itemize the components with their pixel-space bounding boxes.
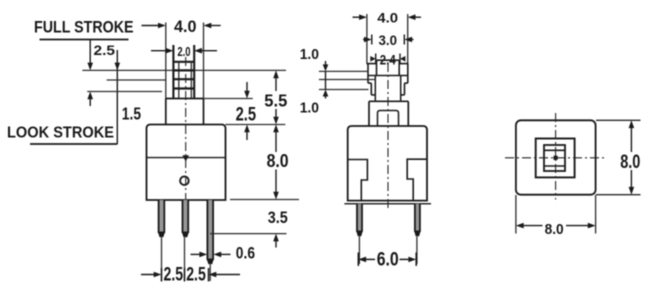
dim text 6.0: [377, 249, 399, 270]
button hole square: [536, 139, 575, 178]
dim text 2.0: [177, 45, 190, 59]
svg-text:3.0: 3.0: [379, 33, 398, 48]
right notch side view: [407, 159, 427, 200]
step box side view: [369, 101, 408, 126]
dim text 1.0 lower: [300, 101, 319, 117]
dim text 2.5 right: [186, 263, 206, 285]
button rect lower line: [544, 165, 565, 167]
lock pin circle: [180, 176, 189, 185]
plunger cap side view: [377, 60, 400, 75]
plunger flange ears side view: [367, 64, 409, 84]
lock stroke vertical with arrow: [115, 50, 121, 144]
dim 6.0: [358, 253, 416, 267]
center dot: [554, 156, 558, 160]
button rect upper line: [544, 149, 565, 151]
base plate line side view: [344, 203, 431, 205]
svg-text:2.5: 2.5: [164, 263, 184, 285]
hidden plunger rect in step: [378, 111, 399, 127]
pin left side view: [356, 204, 363, 237]
pin 2 front view: [182, 200, 190, 237]
dim text 2.5 full stroke: [94, 42, 116, 58]
right extension line 8.0 bottom: [595, 195, 597, 234]
full stroke underline: [40, 39, 129, 41]
vertical centerline top view: [555, 113, 557, 200]
shaft rung 1 (on full stroke line): [173, 69, 194, 71]
button rect: [544, 145, 565, 171]
dim 3.0 side view: [363, 35, 414, 45]
svg-text:LOOK STROKE: LOOK STROKE: [7, 125, 114, 142]
dim 8.0 body height: [273, 125, 279, 200]
leader mid side view: [319, 79, 375, 81]
body front view: [147, 125, 226, 201]
pin extension line 2: [184, 238, 186, 282]
step top extension to 2.5 arrow: [204, 98, 253, 100]
dim text 2.4: [380, 52, 396, 67]
full stroke leader arrow: [87, 40, 93, 71]
leader line lock level: [87, 91, 162, 93]
dim 4.0 side view: [353, 14, 422, 20]
body seam line: [147, 157, 226, 159]
pin extension line 1: [161, 238, 163, 282]
leader line mid level: [107, 79, 166, 81]
top extension line 8.0 right: [596, 119, 641, 121]
svg-text:FULL STROKE: FULL STROKE: [34, 18, 134, 37]
dim 3.5 pin length: [273, 234, 279, 248]
left extension line 8.0 bottom: [515, 195, 517, 234]
label LOOK STROKE: [7, 125, 114, 142]
dim text 4.0 front: [174, 18, 197, 36]
up arrow 1.5: [87, 92, 93, 107]
seam center diamond: [182, 155, 189, 161]
dim text 1.0 upper: [300, 47, 319, 63]
leader lower side view: [319, 89, 369, 91]
dim text 5.5: [264, 91, 287, 111]
pin 1 front view: [158, 200, 166, 237]
body top extension line: [226, 124, 286, 126]
svg-text:8.0: 8.0: [620, 152, 640, 173]
left notch side view: [348, 160, 368, 201]
dim text 8.0 front: [267, 151, 289, 171]
dim text 1.5: [122, 104, 141, 124]
look stroke underline: [30, 143, 117, 145]
top view outline: [516, 120, 596, 194]
svg-text:2.0: 2.0: [177, 45, 190, 59]
dim 2.0 front view: [151, 48, 217, 54]
pin 3 front view (long): [207, 200, 215, 264]
dim text 2.5 left: [164, 263, 184, 285]
svg-text:6.0: 6.0: [377, 249, 399, 270]
svg-text:5.5: 5.5: [264, 91, 287, 111]
svg-text:8.0: 8.0: [267, 151, 289, 171]
pin extension left side: [358, 236, 360, 264]
svg-text:0.6: 0.6: [236, 245, 255, 263]
dim 8.0 vertical top view: [629, 120, 635, 194]
pin right side view: [414, 204, 421, 237]
extension line right of 4.0: [203, 23, 205, 99]
label FULL STROKE: [34, 18, 134, 37]
leader line full stroke level: [82, 69, 286, 71]
bottom extension line 8.0 right: [596, 194, 641, 196]
pin extension right side: [416, 236, 418, 264]
svg-text:3.5: 3.5: [268, 209, 288, 227]
plunger inner shaft side view: [375, 76, 400, 102]
dim 8.0 horizontal top view: [516, 223, 596, 229]
extension line left of 4.0: [165, 23, 167, 99]
dim 4.0 front view: [142, 23, 221, 29]
dim text 3.0: [379, 33, 398, 48]
shaft rung 3: [173, 87, 194, 89]
shaft rung 2: [173, 78, 194, 80]
svg-text:4.0: 4.0: [174, 18, 197, 36]
dim 2.4 side view: [370, 54, 405, 65]
shaft inner keyway lines: [179, 62, 192, 99]
dim 1.0 upper leaders: [319, 70, 369, 72]
centerline side view: [387, 63, 389, 208]
svg-text:1.0: 1.0: [300, 47, 319, 63]
svg-text:4.0: 4.0: [377, 10, 398, 25]
extension lines 4.0 side: [367, 14, 408, 64]
centerline front view: [185, 57, 187, 199]
dim text 3.5: [268, 209, 288, 227]
svg-text:2.5: 2.5: [186, 263, 206, 285]
dim text 4.0 side: [377, 10, 398, 25]
pin end extension line: [210, 233, 287, 235]
dim 5.5: [273, 70, 279, 124]
dim text 8.0 vertical: [620, 152, 640, 173]
body bottom extension line: [230, 199, 299, 201]
svg-text:1.0: 1.0: [300, 101, 319, 117]
dim text 8.0 horizontal: [545, 221, 564, 238]
dim text 0.6: [236, 245, 255, 263]
pin extension line 3: [209, 265, 211, 282]
dim 1.0 vertical with arrows: [323, 61, 329, 99]
svg-text:2.5: 2.5: [236, 104, 257, 126]
svg-text:1.5: 1.5: [122, 104, 141, 124]
body side view: [348, 126, 427, 201]
dim 2.5 step height (right of step): [244, 82, 250, 140]
plunger shaft front view: [173, 45, 195, 99]
dim text 2.5 step: [236, 104, 257, 126]
step box front view: [166, 99, 204, 125]
dim 2.5 2.5 pin pitch: [141, 268, 240, 282]
horizontal centerline top view: [505, 157, 605, 159]
svg-text:2.5: 2.5: [94, 42, 116, 58]
plunger mid section side view: [371, 83, 404, 95]
dim 0.6 pin width: [191, 252, 231, 258]
svg-text:8.0: 8.0: [545, 221, 564, 238]
